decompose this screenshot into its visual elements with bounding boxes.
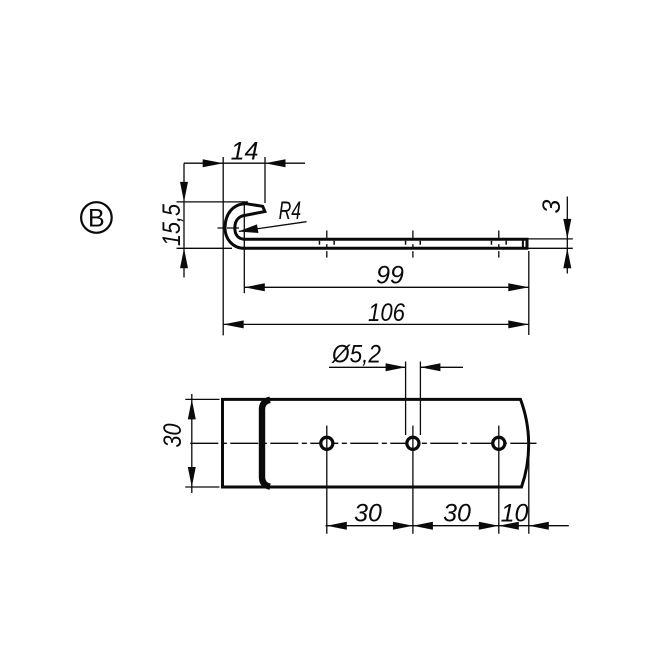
dimension 3 (thickness) xyxy=(529,197,573,274)
dimension 106 xyxy=(223,299,529,328)
svg-text:B: B xyxy=(88,204,105,232)
radius leader R4 xyxy=(238,197,306,233)
svg-text:R4: R4 xyxy=(279,197,302,225)
top view: plate outline xyxy=(223,399,529,487)
svg-text:14: 14 xyxy=(231,138,259,166)
dimension 99 xyxy=(244,202,529,335)
svg-text:3: 3 xyxy=(538,199,566,213)
dimension 30 (width) xyxy=(159,394,220,493)
svg-text:15,5: 15,5 xyxy=(158,204,186,246)
svg-text:10: 10 xyxy=(501,499,529,527)
svg-text:106: 106 xyxy=(368,299,405,327)
hole centerline 2 (side view) xyxy=(406,231,421,258)
hole centerline 3 (side view) xyxy=(491,231,506,258)
top view horizontal centerline xyxy=(190,442,536,444)
svg-text:Ø5,2: Ø5,2 xyxy=(331,340,381,368)
strip right end inner cap line xyxy=(522,240,524,249)
svg-text:30: 30 xyxy=(159,423,187,447)
datum circle B xyxy=(81,202,112,233)
dimension Ø5,2 xyxy=(329,340,463,435)
svg-text:30: 30 xyxy=(354,499,382,527)
hole centerline 1 (side view) xyxy=(319,231,334,258)
bottom dimensions 30 / 30 / 10 xyxy=(326,446,569,534)
svg-text:30: 30 xyxy=(443,499,471,527)
hole 2 xyxy=(407,426,419,534)
hole 3 xyxy=(493,426,505,534)
hole 1 xyxy=(321,426,333,534)
svg-text:99: 99 xyxy=(376,262,404,290)
side view: hook and strip outline xyxy=(225,204,527,249)
dimension 15,5 xyxy=(158,164,248,278)
dimension 14 xyxy=(184,138,305,336)
top view: bend tangent line xyxy=(262,400,270,487)
hook bend centerline cross xyxy=(218,227,242,229)
